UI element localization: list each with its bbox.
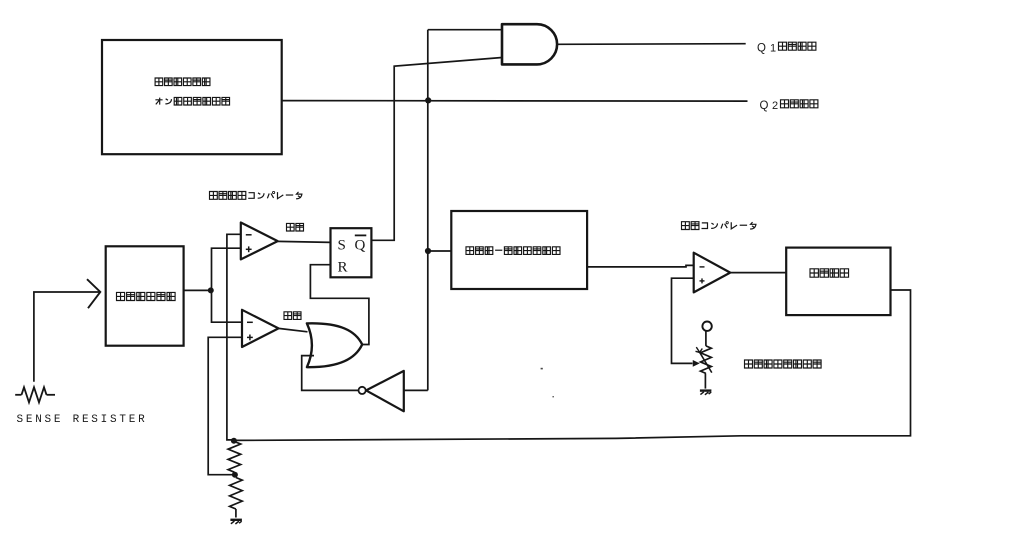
wire: CMP1 output to U2 S input	[278, 241, 331, 242]
junction: divider tap node	[232, 472, 238, 478]
wire: detection node to CMP1 plus and CMP2 minus inputs	[212, 248, 243, 322]
wire: OR output to U2 R input	[310, 265, 369, 345]
svg-text:Q: Q	[355, 237, 366, 253]
ground: divider ground	[230, 519, 242, 521]
wire: main vertical bus (inverter out / F-V in / AND in)	[427, 30, 429, 391]
resistor R1 (current-limit divider upper)	[228, 442, 241, 473]
label: speed command voltage setting (速度指令電圧設定)	[745, 360, 822, 368]
label: freq-voltage conversion circuit (周波数－電圧変換回路)	[466, 247, 560, 255]
wire: VR1 circle to element	[705, 331, 707, 346]
wire: R2 to ground	[235, 509, 237, 518]
svg-text:R: R	[338, 260, 348, 276]
block A4: integrator circuit	[786, 248, 890, 316]
comparator CMP3 (speed comparator)	[694, 253, 731, 293]
comparator CMP1 (upper current limit)	[241, 223, 278, 260]
label: integrator circuit (積分回路)	[810, 269, 849, 277]
label: lower limit (下限)	[284, 312, 301, 320]
wire: bus to U4 input	[404, 389, 428, 391]
label: CMP2 minus input mark	[247, 321, 253, 323]
wire: inverter output to OR gate bottom input	[302, 356, 359, 391]
wire: A2 output to detection node	[184, 289, 212, 291]
svg-text:2: 2	[772, 100, 778, 112]
block A1: position detection / on-interval setting circuit	[102, 40, 282, 154]
junction: current detection output node	[208, 287, 214, 293]
svg-text:S: S	[338, 237, 346, 253]
block A3: frequency-to-voltage converter circuit	[451, 211, 587, 289]
label: Q1 drive signal terminal	[757, 42, 816, 54]
wire: U2 Q-bar output to U1 lower input (with diagonal)	[372, 58, 502, 241]
SR latch U2	[331, 228, 372, 277]
block A2: current detection circuit	[106, 246, 184, 345]
stray mark 2	[552, 396, 554, 397]
label: CMP2 plus input mark	[247, 336, 253, 338]
label: speed comparator (速度コンパレータ)	[682, 222, 756, 230]
wire: R1 to tap node	[233, 472, 236, 475]
svg-text:SENSE RESISTER: SENSE RESISTER	[17, 414, 148, 426]
label: U4 output bubble	[359, 387, 366, 394]
wire: CMP3 plus input to VR1 wiper	[672, 278, 694, 363]
wire: CMP1 minus input to divider top / feedback net	[227, 234, 241, 440]
resistor R2 (current-limit divider lower)	[230, 478, 243, 510]
svg-text:1: 1	[770, 42, 776, 54]
arrowhead: into A2 input	[87, 279, 100, 308]
label: current detection circuit (電流検出回路)	[117, 292, 176, 300]
label: CMP3 plus input mark	[700, 280, 705, 282]
junction: bus to A3 input	[425, 248, 431, 254]
label: A1 line2 (on-interval setting circuit)	[155, 97, 229, 105]
label: CMP1 plus input mark	[246, 248, 252, 250]
potentiometer VR1 (speed command voltage)	[701, 346, 712, 374]
stray mark 1	[541, 368, 543, 370]
terminal: VR1 top circle	[702, 322, 711, 331]
junction: vertical bus joins Q2 line	[425, 97, 431, 103]
svg-text:Q: Q	[760, 100, 769, 112]
wire: A1 output / Q2 drive net	[282, 100, 748, 103]
junction: feedback joins R1 top	[231, 438, 237, 444]
wire: CMP2 output to OR gate top input	[279, 328, 308, 331]
AND gate U1	[502, 24, 557, 64]
OR gate U3	[307, 323, 362, 367]
wire: bus top to AND gate U1 top input	[428, 29, 502, 31]
comparator CMP2 (lower current limit)	[242, 310, 279, 347]
label: upper limit (上限)	[287, 223, 304, 231]
label: U2 pin Q-bar	[355, 235, 367, 253]
NOT gate U4 (inverter)	[366, 371, 404, 411]
ground: VR1 ground	[700, 389, 712, 391]
wire: U1 output to Q1 terminal	[557, 43, 746, 46]
wire: CMP3 output to A4 input	[730, 272, 786, 274]
arrowhead: wiper arrow into VR1	[693, 361, 698, 366]
label: Q2 drive signal terminal	[760, 100, 818, 112]
label: current comparison comparator (電流比較コンパレータ)	[210, 191, 302, 199]
wire: A3 output to CMP3 minus input	[587, 265, 694, 267]
wire: VR1 to ground	[704, 373, 706, 388]
resistor RS (sense resistor)	[15, 394, 21, 396]
wire: A4 output feedback to divider top (long bottom run)	[234, 290, 911, 440]
wire: sense resistor to A2 input	[34, 292, 100, 382]
svg-text:Q: Q	[757, 42, 766, 54]
label: CMP3 minus input mark	[700, 266, 705, 268]
VR1 adjustment arrow (diagonal)	[700, 352, 712, 372]
wire: divider tap to CMP2 plus input	[208, 337, 242, 474]
label: CMP1 minus input mark	[246, 234, 252, 236]
label: A1 line1 (position detection circuit)	[155, 78, 210, 86]
wire: bus junction to A3 input	[428, 250, 451, 252]
